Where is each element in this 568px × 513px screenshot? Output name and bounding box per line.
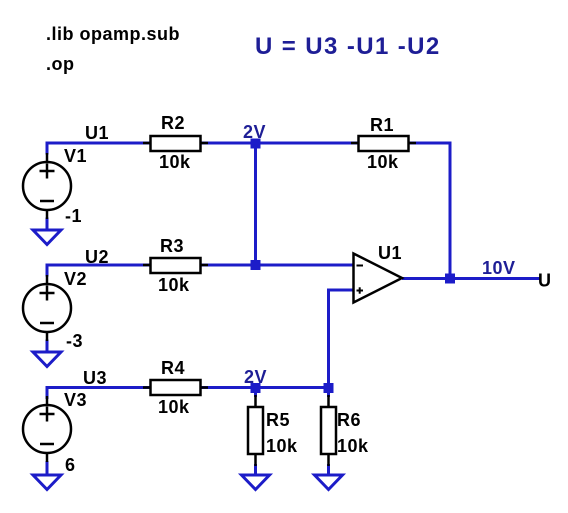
ground (below R6) — [315, 475, 343, 490]
junction R6 node — [324, 383, 334, 393]
svg-text:U1: U1 — [378, 243, 402, 263]
junction output node — [445, 274, 455, 284]
svg-text:10k: 10k — [337, 436, 369, 456]
ground (below V2) — [33, 352, 61, 367]
svg-text:R3: R3 — [160, 236, 184, 256]
wire R4 to R5/R6 nodes — [201, 386, 329, 389]
svg-text:.lib opamp.sub: .lib opamp.sub — [46, 24, 180, 44]
svg-text:10k: 10k — [158, 397, 190, 417]
svg-text:R1: R1 — [370, 115, 394, 135]
wire R6 to ground — [327, 464, 330, 475]
svg-text:10k: 10k — [266, 436, 298, 456]
junction node 2V top — [251, 139, 261, 149]
svg-text:U3: U3 — [83, 368, 107, 388]
wire V1 to ground — [46, 218, 49, 231]
svg-text:6: 6 — [65, 455, 76, 475]
ground (below R5) — [242, 475, 270, 490]
svg-text:10k: 10k — [159, 152, 191, 172]
ground (below V1) — [33, 230, 61, 245]
wire noninverting input down to bottom node — [329, 290, 354, 388]
svg-text:V2: V2 — [64, 269, 87, 289]
svg-text:-1: -1 — [65, 206, 82, 226]
wire V2 to R3 (net U2) — [47, 265, 151, 277]
svg-text:10k: 10k — [367, 152, 399, 172]
svg-text:2V: 2V — [244, 367, 267, 387]
wire V3 to ground — [46, 461, 49, 475]
wire node to R5 — [254, 388, 257, 397]
wire node to R6 — [327, 388, 330, 397]
wire R2 to R1 through node 2V — [201, 142, 359, 145]
voltage source V1 — [23, 153, 71, 219]
svg-text:U = U3 -U1 -U2: U = U3 -U1 -U2 — [255, 33, 441, 60]
voltage source V3 — [23, 396, 71, 462]
svg-text:R5: R5 — [266, 410, 290, 430]
wire R1 to feedback corner — [409, 143, 451, 279]
svg-text:2V: 2V — [243, 122, 266, 142]
svg-text:U: U — [538, 271, 552, 291]
svg-text:10k: 10k — [158, 275, 190, 295]
resistor R1 — [351, 136, 416, 151]
svg-text:U1: U1 — [85, 123, 109, 143]
voltage source V2 — [23, 275, 71, 341]
resistor R6 — [321, 395, 336, 466]
svg-text:V3: V3 — [64, 390, 87, 410]
ground (below V3) — [33, 475, 61, 490]
resistor R4 — [143, 380, 208, 395]
svg-text:R2: R2 — [161, 113, 185, 133]
svg-text:R4: R4 — [161, 358, 185, 378]
svg-text:.op: .op — [46, 54, 75, 74]
junction node 2V bottom — [251, 383, 261, 393]
resistor R3 — [143, 258, 208, 273]
wire op-amp output to node U — [402, 277, 540, 280]
svg-text:V1: V1 — [64, 146, 87, 166]
wire R3 to op-amp inverting input — [201, 264, 354, 267]
svg-text:-3: -3 — [66, 331, 83, 351]
wire V1 to R2 (net U1) — [47, 143, 151, 155]
wire node 2V down to inverting node — [254, 143, 257, 265]
junction inverting input node — [251, 260, 261, 270]
op-amp U1 — [354, 254, 403, 303]
wire R5 to ground — [254, 464, 257, 475]
wire V3 to R4 (net U3) — [47, 388, 151, 400]
svg-text:10V: 10V — [482, 258, 516, 278]
resistor R5 — [248, 395, 263, 466]
svg-text:U2: U2 — [85, 247, 109, 267]
resistor R2 — [143, 136, 208, 151]
wire V2 to ground — [46, 340, 49, 353]
svg-text:R6: R6 — [337, 410, 361, 430]
